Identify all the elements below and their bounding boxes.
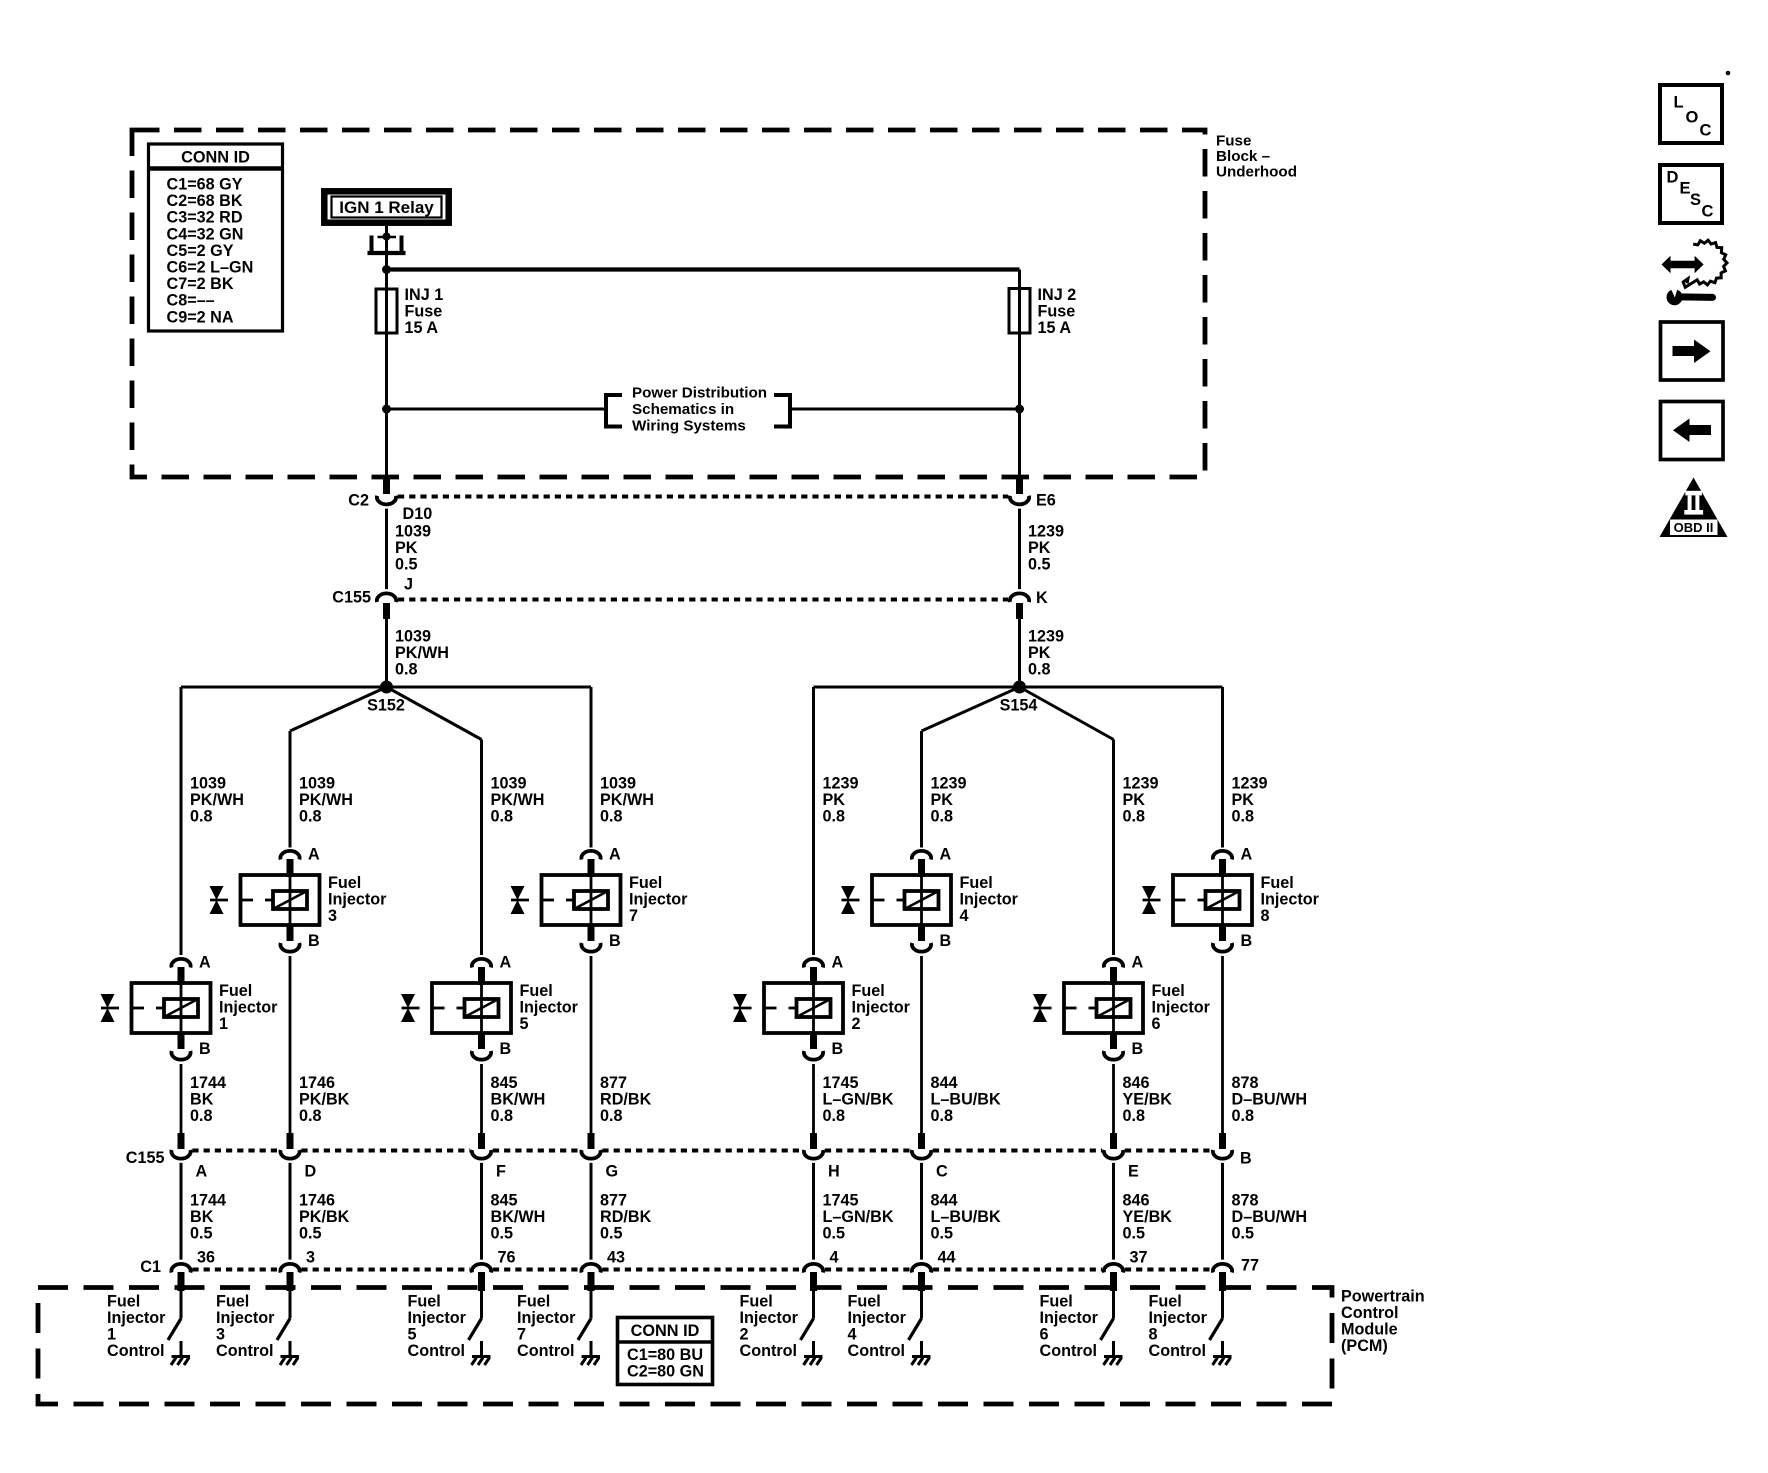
wire 1239 PK 0.8 to S154 <box>1018 619 1021 687</box>
svg-text:Injector: Injector <box>328 891 387 909</box>
svg-text:0.8: 0.8 <box>190 808 213 826</box>
driver: fuel injector 7 control switch <box>578 1291 591 1340</box>
label: 845 BK/WH 0.8 <box>491 1074 546 1125</box>
svg-text:C3=32 RD: C3=32 RD <box>167 209 243 227</box>
svg-text:0.5: 0.5 <box>299 1225 322 1243</box>
svg-text:Power Distribution: Power Distribution <box>632 385 767 402</box>
svg-text:CONN ID: CONN ID <box>181 149 250 167</box>
label: Fuel Injector 7 <box>629 874 688 925</box>
wire: injector branch 5 to C155 <box>812 1064 815 1134</box>
svg-text:C2=68 BK: C2=68 BK <box>167 192 243 210</box>
label: 877 RD/BK 0.5 <box>600 1192 652 1243</box>
svg-text:E6: E6 <box>1036 492 1056 510</box>
svg-text:B: B <box>940 932 952 950</box>
node: power distribution tap right <box>1015 405 1024 414</box>
svg-text:4: 4 <box>830 1249 839 1267</box>
label: 1239 PK 0.8 <box>1028 628 1064 679</box>
svg-text:Fuel: Fuel <box>629 874 662 892</box>
svg-text:37: 37 <box>1130 1249 1148 1267</box>
ground (injector 8 driver) <box>1213 1341 1232 1365</box>
svg-text:Module: Module <box>1341 1321 1398 1339</box>
svg-text:1745: 1745 <box>823 1074 859 1092</box>
svg-text:INJ 1: INJ 1 <box>405 286 444 304</box>
label: 1039 PK/WH 0.8 branch 2 <box>299 775 353 826</box>
svg-text:B: B <box>308 932 320 950</box>
svg-text:PK/BK: PK/BK <box>299 1208 350 1226</box>
node: bus junction left <box>382 265 391 274</box>
svg-text:Schematics in: Schematics in <box>632 401 734 418</box>
connector C1 pin 4 <box>804 1264 823 1291</box>
wire: injector branch 3 to C155 <box>480 1064 483 1134</box>
wire: injector branch 4 to C155 <box>590 956 593 1134</box>
svg-text:0.8: 0.8 <box>299 1107 322 1125</box>
label: 1239 PK 0.8 branch 6 <box>931 775 967 826</box>
wire: bus down to INJ 1 fuse <box>385 270 388 292</box>
svg-text:K: K <box>1036 589 1048 607</box>
svg-text:878: 878 <box>1232 1192 1259 1210</box>
label: Powertrain Control Module (PCM) <box>1341 1288 1425 1356</box>
svg-text:0.8: 0.8 <box>1028 661 1051 679</box>
svg-text:845: 845 <box>491 1074 518 1092</box>
connector C1 pin 76 <box>472 1264 491 1291</box>
label: Fuel Injector 5 <box>520 982 579 1033</box>
label: Fuel Injector 6 <box>1152 982 1211 1033</box>
svg-text:Control: Control <box>848 1342 906 1360</box>
label: 878 D–BU/WH 0.8 <box>1232 1074 1308 1125</box>
svg-text:Injector: Injector <box>216 1309 275 1327</box>
svg-text:Fuel: Fuel <box>328 874 361 892</box>
CONN ID table (PCM) <box>618 1318 713 1385</box>
svg-text:Injector: Injector <box>629 891 688 909</box>
svg-text:0.8: 0.8 <box>931 1107 954 1125</box>
svg-text:0.5: 0.5 <box>823 1225 846 1243</box>
wire: C155 to PCM pin branch 4 <box>590 1163 593 1260</box>
svg-text:Fuel: Fuel <box>740 1293 773 1311</box>
label: 844 L–BU/BK 0.8 <box>931 1074 1001 1125</box>
connector C155 pin K <box>1010 593 1029 619</box>
svg-text:IGN 1 Relay: IGN 1 Relay <box>339 198 434 217</box>
svg-text:Fuel: Fuel <box>848 1293 881 1311</box>
wire: S154 to injector 2 branch <box>814 686 1020 689</box>
svg-text:C4=32 GN: C4=32 GN <box>167 225 244 243</box>
wire: bus down to INJ 2 fuse <box>1018 270 1021 291</box>
bracket left: power distribution reference <box>604 393 622 429</box>
svg-text:C155: C155 <box>332 589 371 607</box>
svg-text:A: A <box>500 954 512 972</box>
svg-text:Injector: Injector <box>848 1309 907 1327</box>
svg-text:0.8: 0.8 <box>1232 1107 1255 1125</box>
svg-text:Fuel: Fuel <box>517 1293 550 1311</box>
svg-text:877: 877 <box>600 1074 627 1092</box>
svg-text:0.5: 0.5 <box>931 1225 954 1243</box>
svg-text:Injector: Injector <box>1040 1309 1099 1327</box>
svg-text:Injector: Injector <box>852 999 911 1017</box>
svg-text:RD/BK: RD/BK <box>600 1208 652 1226</box>
label: 1239 PK 0.8 branch 5 <box>823 775 859 826</box>
svg-text:C9=2 NA: C9=2 NA <box>167 308 234 326</box>
ground (injector 3 driver) <box>280 1341 299 1365</box>
wire: S154 to injector 6 branch <box>1020 687 1114 740</box>
connector C1 pin 43 <box>581 1264 600 1291</box>
relay pin terminal symbol <box>368 233 406 254</box>
svg-text:A: A <box>832 954 844 972</box>
svg-text:0.5: 0.5 <box>1028 556 1051 574</box>
svg-text:PK: PK <box>1232 791 1255 809</box>
svg-text:Fuel: Fuel <box>216 1293 249 1311</box>
wire: injector branch 2 to C155 <box>289 956 292 1134</box>
svg-text:0.8: 0.8 <box>190 1107 213 1125</box>
svg-text:INJ 2: INJ 2 <box>1038 286 1077 304</box>
ground (injector 1 driver) <box>171 1341 190 1365</box>
svg-text:Injector: Injector <box>520 999 579 1017</box>
svg-text:G: G <box>606 1163 619 1181</box>
label: 846 YE/BK 0.8 <box>1123 1074 1173 1125</box>
svg-text:Control: Control <box>1149 1342 1207 1360</box>
svg-text:BK/WH: BK/WH <box>491 1091 546 1109</box>
svg-text:Control: Control <box>740 1342 798 1360</box>
label: Fuel Injector 1 <box>219 982 278 1033</box>
svg-text:Block –: Block – <box>1216 148 1270 165</box>
svg-text:Injector: Injector <box>408 1309 467 1327</box>
svg-text:0.8: 0.8 <box>299 808 322 826</box>
svg-text:S152: S152 <box>367 697 405 715</box>
fuel injector 8 <box>1142 851 1252 952</box>
label: Fuel Injector 7 Control <box>517 1293 576 1361</box>
connector C155 pin D <box>280 1133 299 1159</box>
svg-text:Injector: Injector <box>1152 999 1211 1017</box>
label: Fuel Injector 6 Control <box>1040 1293 1099 1361</box>
svg-text:0.5: 0.5 <box>491 1225 514 1243</box>
fuse block underhood box <box>132 130 1205 477</box>
svg-text:A: A <box>199 954 211 972</box>
wire: S152 to injector 7 branch <box>387 686 592 689</box>
splice S152 <box>380 681 393 694</box>
svg-text:0.8: 0.8 <box>823 808 846 826</box>
svg-text:B: B <box>1132 1040 1144 1058</box>
svg-text:B: B <box>1240 1150 1252 1168</box>
svg-text:1039: 1039 <box>299 775 335 793</box>
svg-text:H: H <box>828 1163 840 1181</box>
svg-text:(PCM): (PCM) <box>1341 1337 1388 1355</box>
svg-text:Fuel: Fuel <box>960 874 993 892</box>
svg-text:YE/BK: YE/BK <box>1123 1091 1173 1109</box>
svg-text:Injector: Injector <box>740 1309 799 1327</box>
svg-text:1744: 1744 <box>190 1074 226 1092</box>
label: Fuel Injector 2 Control <box>740 1293 799 1361</box>
wire: relay output to bus <box>385 226 388 270</box>
svg-text:D–BU/WH: D–BU/WH <box>1232 1208 1308 1226</box>
svg-text:1239: 1239 <box>931 775 967 793</box>
label: 1746 PK/BK 0.8 <box>299 1074 350 1125</box>
svg-text:2: 2 <box>852 1015 861 1033</box>
svg-text:PK/WH: PK/WH <box>600 791 654 809</box>
label: Fuel Injector 3 Control <box>216 1293 275 1361</box>
svg-text:PK/WH: PK/WH <box>395 644 449 662</box>
svg-text:BK: BK <box>190 1208 214 1226</box>
svg-text:0.8: 0.8 <box>823 1107 846 1125</box>
svg-text:878: 878 <box>1232 1074 1259 1092</box>
svg-text:Fuel: Fuel <box>1149 1293 1182 1311</box>
svg-text:D–BU/WH: D–BU/WH <box>1232 1091 1308 1109</box>
svg-text:S: S <box>1690 191 1701 209</box>
driver: fuel injector 4 control switch <box>909 1291 922 1340</box>
svg-text:C1=68 GY: C1=68 GY <box>167 176 243 194</box>
svg-text:C: C <box>1700 122 1712 140</box>
svg-text:Fuel: Fuel <box>107 1293 140 1311</box>
connector C155 pin E <box>1104 1133 1123 1159</box>
wire: INJ 1 fuse to C2 <box>385 331 388 480</box>
label: 1744 BK 0.8 <box>190 1074 226 1125</box>
label: Fuel Injector 4 Control <box>848 1293 907 1361</box>
svg-text:O: O <box>1686 109 1699 127</box>
wire 1039 PK/WH 0.8 to S152 <box>385 619 388 687</box>
svg-text:C8=––: C8=–– <box>167 292 215 310</box>
svg-text:Fuel: Fuel <box>1040 1293 1073 1311</box>
wire: S154 to injector 8 branch <box>1020 686 1223 689</box>
label: 846 YE/BK 0.5 <box>1123 1192 1173 1243</box>
svg-text:43: 43 <box>607 1249 625 1267</box>
svg-text:C2: C2 <box>348 492 369 510</box>
svg-text:877: 877 <box>600 1192 627 1210</box>
svg-text:845: 845 <box>491 1192 518 1210</box>
svg-text:0.8: 0.8 <box>1123 1107 1146 1125</box>
svg-text:CONN ID: CONN ID <box>631 1322 700 1340</box>
label: 1239 PK 0.8 branch 8 <box>1232 775 1268 826</box>
svg-text:5: 5 <box>408 1326 417 1344</box>
wire: injector branch 7 to C155 <box>1112 1064 1115 1134</box>
svg-text:Fuel: Fuel <box>219 982 252 1000</box>
svg-text:Control: Control <box>408 1342 466 1360</box>
label: 1239 PK 0.8 branch 7 <box>1123 775 1159 826</box>
label: 1039 PK/WH 0.8 <box>395 628 449 679</box>
connector C1 pin 44 <box>912 1264 931 1291</box>
wire: injector branch 8 to C155 <box>1221 956 1224 1134</box>
label: INJ 2 Fuse 15 A <box>1038 286 1077 337</box>
connector C155 pin G <box>581 1133 600 1159</box>
label: 1039 PK/WH 0.8 branch 4 <box>600 775 654 826</box>
wire: S154 to injector 4 branch <box>922 687 1020 731</box>
svg-text:Wiring Systems: Wiring Systems <box>632 418 746 435</box>
button back (left arrow) <box>1661 402 1724 460</box>
svg-text:0.8: 0.8 <box>600 1107 623 1125</box>
label: Fuel Injector 1 Control <box>107 1293 166 1361</box>
wire 1239 PK 0.5 <box>1018 509 1021 589</box>
svg-text:Control: Control <box>517 1342 575 1360</box>
label: 1744 BK 0.5 <box>190 1192 226 1243</box>
wire: C155 to PCM pin branch 2 <box>289 1163 292 1260</box>
label: INJ 1 Fuse 15 A <box>405 286 444 337</box>
node: power distribution tap left <box>382 405 391 414</box>
fuse INJ 1 15A <box>376 289 397 333</box>
svg-text:Fuse: Fuse <box>405 303 443 321</box>
wire: S152 to injector 5 branch <box>387 687 482 740</box>
fuel injector 1 <box>101 959 211 1060</box>
svg-text:A: A <box>196 1163 208 1181</box>
fuse INJ 2 15A <box>1009 289 1030 334</box>
svg-text:S154: S154 <box>1000 697 1038 715</box>
svg-text:PK: PK <box>931 791 954 809</box>
label: 845 BK/WH 0.5 <box>491 1192 546 1243</box>
svg-text:A: A <box>1241 846 1253 864</box>
svg-text:3: 3 <box>306 1249 315 1267</box>
label: Fuel Injector 4 <box>960 874 1019 925</box>
driver: fuel injector 5 control switch <box>469 1291 482 1340</box>
label: Fuel Injector 8 Control <box>1149 1293 1208 1361</box>
svg-text:0.8: 0.8 <box>491 1107 514 1125</box>
connector C155 pin J <box>377 593 396 619</box>
svg-text:Fuel: Fuel <box>520 982 553 1000</box>
label: 1239 PK 0.5 <box>1028 523 1064 574</box>
connector row C1 dotted <box>192 1268 1211 1272</box>
svg-text:B: B <box>609 932 621 950</box>
svg-text:D: D <box>305 1163 317 1181</box>
label: Fuel Injector 8 <box>1261 874 1320 925</box>
wire: C155 to PCM pin branch 5 <box>812 1163 815 1260</box>
icon OBD II <box>1660 478 1728 538</box>
label: Fuse Block - Underhood <box>1216 133 1297 181</box>
powertrain control module box <box>38 1288 1332 1405</box>
fuel injector 6 <box>1033 959 1143 1060</box>
svg-text:D: D <box>1667 169 1679 187</box>
svg-text:PK: PK <box>395 539 418 557</box>
wire: injector branch 6 to C155 <box>920 956 923 1134</box>
label: Fuel Injector 5 Control <box>408 1293 467 1361</box>
svg-text:1: 1 <box>107 1326 116 1344</box>
connector C155 pin F <box>472 1133 491 1159</box>
button LOC <box>1660 85 1722 143</box>
wire: C155 to PCM pin branch 3 <box>480 1163 483 1260</box>
label: 1039 PK/WH 0.8 branch 1 <box>190 775 244 826</box>
svg-text:Fuse: Fuse <box>1038 303 1076 321</box>
connector E6 pin <box>1010 478 1029 504</box>
wire: INJ 2 fuse to E6 <box>1018 331 1021 480</box>
svg-text:Control: Control <box>1341 1304 1399 1322</box>
connector C1 pin 77 <box>1213 1264 1232 1291</box>
svg-text:Injector: Injector <box>1261 891 1320 909</box>
label: Fuel Injector 3 <box>328 874 387 925</box>
svg-text:0.5: 0.5 <box>1232 1225 1255 1243</box>
svg-text:C6=2 L–GN: C6=2 L–GN <box>167 259 254 277</box>
fuel injector 7 <box>511 851 621 952</box>
svg-text:1039: 1039 <box>190 775 226 793</box>
wire: C155 to PCM pin branch 8 <box>1221 1163 1224 1260</box>
svg-text:Fuel: Fuel <box>1261 874 1294 892</box>
connector C155 pin A <box>171 1133 190 1159</box>
svg-text:1239: 1239 <box>1123 775 1159 793</box>
svg-text:5: 5 <box>520 1015 529 1033</box>
label: 877 RD/BK 0.8 <box>600 1074 652 1125</box>
wire: C155 to PCM pin branch 7 <box>1112 1163 1115 1260</box>
wire: tap to power distribution reference <box>387 408 607 411</box>
fuel injector 2 <box>733 959 843 1060</box>
driver: fuel injector 6 control switch <box>1101 1291 1114 1340</box>
connector row C155 dotted (PCM side) <box>192 1149 1211 1153</box>
svg-text:E: E <box>1680 180 1691 198</box>
fuel injector 3 <box>210 851 320 952</box>
wire: C155 to PCM pin branch 6 <box>920 1163 923 1260</box>
svg-text:C1=80 BU: C1=80 BU <box>627 1346 703 1364</box>
svg-text:PK/WH: PK/WH <box>491 791 545 809</box>
driver: fuel injector 1 control switch <box>168 1291 181 1340</box>
connector C1 pin 36 <box>171 1264 190 1291</box>
fuel injector 4 <box>841 851 951 952</box>
svg-text:L–GN/BK: L–GN/BK <box>823 1208 894 1226</box>
svg-text:Fuel: Fuel <box>1152 982 1185 1000</box>
label: 1745 L–GN/BK 0.5 <box>823 1192 894 1243</box>
connector C155 pin B <box>1213 1133 1232 1159</box>
svg-text:Fuel: Fuel <box>408 1293 441 1311</box>
wire: feed bus to INJ 2 fuse <box>387 267 1020 271</box>
sidebar speck <box>1726 71 1731 76</box>
svg-text:Fuel: Fuel <box>852 982 885 1000</box>
svg-text:7: 7 <box>517 1326 526 1344</box>
svg-text:Injector: Injector <box>107 1309 166 1327</box>
svg-text:4: 4 <box>960 907 969 925</box>
svg-text:1746: 1746 <box>299 1074 335 1092</box>
label: 1746 PK/BK 0.5 <box>299 1192 350 1243</box>
label: Fuel Injector 2 <box>852 982 911 1033</box>
label: 878 D–BU/WH 0.5 <box>1232 1192 1308 1243</box>
svg-text:846: 846 <box>1123 1074 1150 1092</box>
svg-text:0.8: 0.8 <box>395 661 418 679</box>
bracket right: power distribution reference <box>774 393 792 429</box>
svg-text:E: E <box>1128 1163 1139 1181</box>
svg-text:PK/BK: PK/BK <box>299 1091 350 1109</box>
label: 1745 L–GN/BK 0.8 <box>823 1074 894 1125</box>
svg-text:1239: 1239 <box>823 775 859 793</box>
svg-text:Injector: Injector <box>517 1309 576 1327</box>
svg-text:4: 4 <box>848 1326 857 1344</box>
connector C2 pin D10 <box>377 478 396 504</box>
svg-text:2: 2 <box>740 1326 749 1344</box>
svg-text:F: F <box>496 1163 506 1181</box>
wire: S152 to injector 1 branch <box>181 686 387 689</box>
button next (right arrow) <box>1661 322 1724 380</box>
wire: power distribution reference to right tap <box>790 408 1020 411</box>
svg-text:C2=80 GN: C2=80 GN <box>627 1363 704 1381</box>
svg-text:A: A <box>308 846 320 864</box>
svg-text:A: A <box>1132 954 1144 972</box>
svg-text:8: 8 <box>1261 907 1270 925</box>
svg-text:Injector: Injector <box>219 999 278 1017</box>
svg-text:Control: Control <box>107 1342 165 1360</box>
connector C155 pin C <box>912 1133 931 1159</box>
svg-text:PK/WH: PK/WH <box>190 791 244 809</box>
svg-text:A: A <box>609 846 621 864</box>
label: 1039 PK 0.5 <box>395 523 431 574</box>
svg-text:Control: Control <box>216 1342 274 1360</box>
svg-text:77: 77 <box>1241 1257 1259 1275</box>
svg-text:0.8: 0.8 <box>931 808 954 826</box>
svg-text:Injector: Injector <box>960 891 1019 909</box>
svg-text:PK: PK <box>1028 539 1051 557</box>
svg-text:0.5: 0.5 <box>1123 1225 1146 1243</box>
svg-text:L–BU/BK: L–BU/BK <box>931 1091 1001 1109</box>
connector row C155 dotted <box>398 598 1008 602</box>
svg-text:J: J <box>404 576 413 594</box>
button DESC <box>1660 165 1722 223</box>
driver: fuel injector 2 control switch <box>801 1291 814 1340</box>
svg-text:844: 844 <box>931 1074 958 1092</box>
wire: S152 to injector 3 branch <box>290 687 387 731</box>
svg-text:C7=2 BK: C7=2 BK <box>167 275 234 293</box>
svg-text:0.8: 0.8 <box>1232 808 1255 826</box>
CONN ID table (fuse block) <box>149 144 283 331</box>
svg-text:0.8: 0.8 <box>1123 808 1146 826</box>
label: Power Distribution Schematics in Wiring Systems <box>632 385 767 435</box>
ground (injector 7 driver) <box>581 1341 600 1365</box>
svg-text:1: 1 <box>219 1015 228 1033</box>
